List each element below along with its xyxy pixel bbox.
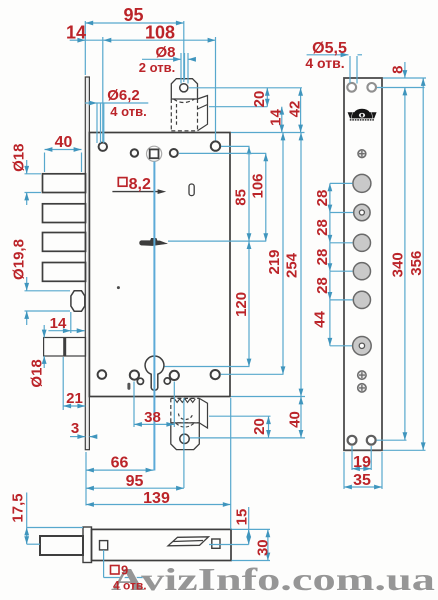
svg-text:42: 42 xyxy=(287,101,304,118)
faceplate hole C4 xyxy=(353,263,370,280)
dim 42 xyxy=(231,88,305,133)
faceplate screw hole bottom-left xyxy=(348,436,357,445)
svg-text:66: 66 xyxy=(111,455,129,472)
keeper hole centreline xyxy=(183,398,185,488)
svg-text:38: 38 xyxy=(144,409,161,426)
faceplate cross screw mid 1 xyxy=(358,371,366,379)
faceplate hole C2 xyxy=(354,204,370,220)
svg-text:28: 28 xyxy=(314,190,331,207)
dim 17,5 xyxy=(27,493,83,545)
svg-text:139: 139 xyxy=(143,490,170,507)
svg-text:3: 3 xyxy=(71,420,79,437)
svg-text:Ø8: Ø8 xyxy=(155,44,175,61)
dim Ø19,8 xyxy=(25,277,71,325)
dim 219 xyxy=(221,133,284,375)
dim 44 chain xyxy=(330,300,352,346)
svg-text:9: 9 xyxy=(121,563,128,578)
svg-text:108: 108 xyxy=(145,23,175,43)
screw hole bottom-left xyxy=(98,370,107,379)
label square 9 xyxy=(111,563,129,578)
dim 38 xyxy=(134,382,174,428)
screw hole top-right xyxy=(211,141,220,150)
centreline xyxy=(153,162,155,471)
round bolt xyxy=(71,291,85,311)
svg-text:106: 106 xyxy=(250,173,267,198)
dim 66 xyxy=(86,452,154,506)
brand logo xyxy=(348,109,377,120)
dim 106 xyxy=(168,153,266,241)
euro cylinder keyhole xyxy=(145,356,164,390)
svg-text:19: 19 xyxy=(353,454,371,471)
small slot upper xyxy=(189,184,194,196)
dim 14 mid-left xyxy=(48,312,84,333)
small slot lower xyxy=(127,383,130,390)
dim 139 xyxy=(86,398,231,529)
square hole leader xyxy=(104,550,146,578)
dim 40 top-left xyxy=(45,150,82,173)
small hole left of keyhole xyxy=(137,378,143,384)
svg-text:44: 44 xyxy=(312,311,329,328)
faceplate hole C3 xyxy=(353,234,370,251)
dim 19 xyxy=(352,446,371,470)
dim 340 xyxy=(377,88,407,441)
side view flange xyxy=(83,527,92,563)
svg-text:85: 85 xyxy=(233,189,250,206)
svg-text:4 отв.: 4 отв. xyxy=(305,55,344,71)
bottom keeper box (3d, hidden lines) xyxy=(171,398,208,428)
dim Ø6,2 leader xyxy=(85,103,148,143)
screw hole top-left xyxy=(99,143,107,151)
dim 3 xyxy=(70,436,97,438)
svg-text:254: 254 xyxy=(284,252,301,278)
screw hole bottom-right xyxy=(211,370,220,379)
dim 8 faceplate xyxy=(377,62,426,88)
svg-text:8,2: 8,2 xyxy=(129,176,151,193)
bottom keeper tag xyxy=(171,423,200,450)
spindle follower xyxy=(147,146,162,161)
top keeper box (3d, hidden lines) xyxy=(171,96,207,131)
svg-text:35: 35 xyxy=(353,472,371,489)
faceplate hole C1 xyxy=(353,174,371,192)
svg-text:Ø18: Ø18 xyxy=(11,144,28,172)
faceplate cross screw mid 2 xyxy=(358,384,366,392)
svg-text:40: 40 xyxy=(287,411,304,428)
dim 14 top-right xyxy=(281,107,283,133)
faceplate (side view plate) xyxy=(344,78,382,450)
faceplate cross screw top xyxy=(358,150,366,158)
side view square hole left xyxy=(100,541,108,550)
cylinder screw left xyxy=(130,371,139,380)
svg-text:95: 95 xyxy=(123,5,143,25)
screw hole top-mid-right xyxy=(170,149,178,157)
svg-text:17,5: 17,5 xyxy=(10,493,27,522)
dim 95 top xyxy=(85,21,184,82)
svg-text:14: 14 xyxy=(268,109,285,126)
svg-text:AvizInfo.com.ua: AvizInfo.com.ua xyxy=(111,561,435,597)
dim 15 xyxy=(209,507,249,545)
svg-text:Ø18: Ø18 xyxy=(29,359,46,387)
label square 8,2 xyxy=(118,176,151,193)
dim 20 top-right xyxy=(189,88,302,107)
lock body xyxy=(89,133,230,397)
svg-text:20: 20 xyxy=(251,418,268,435)
centre cam xyxy=(140,238,167,245)
dim 40 lower-right xyxy=(190,397,305,438)
leader line for 8,2 square xyxy=(112,189,166,194)
faceplate screw hole top-right xyxy=(367,83,376,92)
svg-text:4 отв.: 4 отв. xyxy=(113,579,147,593)
deadbolt 1 xyxy=(43,174,86,193)
dim Ø18 lower xyxy=(43,325,45,368)
svg-text:40: 40 xyxy=(55,134,73,151)
deadbolt 3 xyxy=(43,233,86,252)
dim Ø18 top xyxy=(25,160,42,205)
faceplate hole C6 xyxy=(353,337,372,356)
dim 356 xyxy=(383,78,426,450)
dim 120 xyxy=(165,241,250,366)
top keeper tag xyxy=(171,79,197,99)
svg-text:219: 219 xyxy=(266,249,283,274)
screw hole top-mid-left xyxy=(131,149,138,156)
cylinder screw right xyxy=(170,371,179,380)
svg-text:30: 30 xyxy=(254,539,271,556)
svg-text:340: 340 xyxy=(389,252,406,277)
faceplate hole C5 xyxy=(353,291,370,308)
dim 35 xyxy=(344,452,382,489)
dim 85 xyxy=(221,146,250,241)
deadbolt 4 xyxy=(43,263,86,282)
svg-text:120: 120 xyxy=(233,292,250,317)
deadbolt 2 xyxy=(43,204,86,223)
faceplate screw hole bottom-right xyxy=(367,436,376,445)
side view bolt xyxy=(40,536,83,555)
dim 28 chain xyxy=(330,183,353,300)
svg-text:28: 28 xyxy=(314,249,331,266)
faceplate edge strip (front view) xyxy=(85,77,89,450)
svg-text:14: 14 xyxy=(50,315,67,332)
svg-text:14: 14 xyxy=(66,23,86,43)
svg-text:Ø19,8: Ø19,8 xyxy=(11,239,28,280)
dim 108 xyxy=(103,37,216,142)
dim 21 xyxy=(63,357,85,410)
svg-text:8: 8 xyxy=(390,66,407,74)
dim 30 xyxy=(232,529,271,560)
dim 254 xyxy=(231,133,305,397)
svg-text:95: 95 xyxy=(126,473,144,490)
small hole right of keyhole xyxy=(164,378,170,384)
dim 20 lower xyxy=(209,416,271,438)
side view body xyxy=(92,529,232,560)
svg-text:21: 21 xyxy=(66,390,83,407)
latch bolt xyxy=(44,338,86,357)
svg-text:356: 356 xyxy=(408,251,425,276)
dim Ø5,5 leader xyxy=(307,55,362,84)
dim Ø8 leader xyxy=(142,53,195,84)
svg-text:15: 15 xyxy=(234,509,251,526)
svg-text:20: 20 xyxy=(251,91,268,108)
svg-text:28: 28 xyxy=(314,277,331,294)
faceplate screw hole top-left xyxy=(347,83,356,92)
side view lever xyxy=(168,537,209,546)
svg-text:28: 28 xyxy=(314,219,331,236)
small pin xyxy=(117,286,120,289)
side view square hole right xyxy=(212,539,220,548)
svg-text:2 отв.: 2 отв. xyxy=(139,60,175,75)
svg-text:Ø6,2: Ø6,2 xyxy=(107,87,140,104)
dim 95 bottom xyxy=(86,487,184,489)
svg-text:4 отв.: 4 отв. xyxy=(110,104,146,119)
dim 14 top xyxy=(70,39,104,41)
